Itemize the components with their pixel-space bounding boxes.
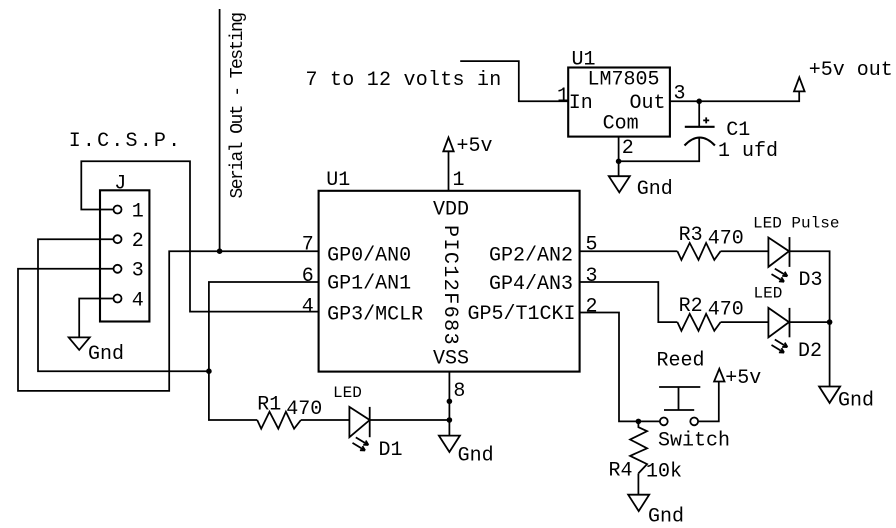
reed switch S1 [657, 349, 731, 452]
svg-text:7: 7 [302, 233, 314, 256]
label Serial Out - Testing (vertical) [228, 13, 248, 199]
power +5v arrow at chip VDD [443, 135, 492, 158]
wire D2 to ground rail [790, 321, 830, 323]
svg-text:VDD: VDD [433, 198, 469, 221]
node junction on GP0 wire at serial line [217, 248, 223, 254]
svg-text:R4: R4 [609, 460, 633, 483]
resistor R3 470 [677, 224, 743, 260]
node junction Out/C1 [696, 99, 702, 105]
wire R1 to D1 [301, 419, 350, 421]
svg-text:Gnd: Gnd [838, 389, 874, 412]
wire switch right contact to +5v [698, 382, 719, 422]
capacitor C1 [685, 117, 779, 163]
svg-text:GP1/AN1: GP1/AN1 [327, 273, 411, 296]
wire C1 top lead [698, 101, 700, 126]
svg-text:LED: LED [754, 285, 783, 303]
wire R4 to ground [637, 473, 639, 494]
resistor R1 470 [257, 393, 322, 428]
svg-text:+5v: +5v [457, 135, 493, 158]
node junction switch/R4 [636, 419, 642, 425]
node junction Com/C1 [616, 159, 622, 165]
wire D1 to VSS ground node [370, 419, 450, 421]
wire ICSP pin2 to node A [38, 239, 209, 371]
svg-text:+5v out: +5v out [809, 59, 893, 82]
svg-text:GP0/AN0: GP0/AN0 [327, 244, 411, 267]
power +5v arrow at switch [714, 367, 761, 390]
svg-text:+5v: +5v [725, 367, 761, 390]
svg-text:6: 6 [302, 265, 314, 288]
svg-text:LED Pulse: LED Pulse [753, 214, 839, 232]
svg-text:Gnd: Gnd [648, 505, 684, 528]
wire serial-out vertical line [219, 9, 221, 251]
wire node A down to R1 [209, 371, 257, 420]
svg-text:10k: 10k [646, 461, 682, 484]
wire ICSP pin4 to ground [79, 299, 113, 338]
svg-text:R2: R2 [679, 295, 703, 318]
connector J (ICSP header) [100, 172, 149, 321]
power +5v out arrow [794, 59, 893, 91]
ground symbol at VSS [439, 436, 494, 468]
regulator U1 LM7805 [557, 48, 686, 159]
svg-text:Switch: Switch [658, 429, 730, 452]
svg-text:VSS: VSS [433, 347, 469, 370]
svg-text:1: 1 [557, 85, 569, 108]
node A junction [206, 368, 212, 374]
svg-text:GP5/T1CKI: GP5/T1CKI [468, 303, 576, 326]
svg-text:I.C.S.P.: I.C.S.P. [69, 130, 183, 153]
node junction D2/D3 ground rail [827, 319, 833, 325]
wire D3 to ground rail [790, 251, 830, 386]
svg-text:PIC12F683: PIC12F683 [438, 225, 461, 346]
svg-text:C1: C1 [726, 119, 750, 142]
node junction on VSS wire [447, 399, 453, 405]
svg-text:Reed: Reed [657, 349, 705, 372]
svg-text:R3: R3 [679, 224, 703, 247]
svg-text:3: 3 [586, 265, 598, 288]
ground symbol at ICSP pin4 [69, 337, 124, 366]
resistor R2 470 [677, 295, 743, 331]
LED D2 [754, 285, 823, 363]
wire R3 to D3 [721, 250, 769, 252]
svg-text:1: 1 [453, 169, 465, 192]
svg-text:Gnd: Gnd [637, 178, 673, 201]
node junction VSS/D1 [447, 417, 453, 423]
svg-text:2: 2 [132, 230, 144, 253]
wire regulator Out pin3 to +5v out [670, 91, 799, 101]
wire node to switch left contact [638, 420, 659, 422]
ground symbol at R4 [628, 495, 684, 528]
svg-text:D2: D2 [798, 340, 822, 363]
svg-text:2: 2 [622, 137, 634, 160]
svg-text:In: In [569, 92, 593, 115]
svg-text:470: 470 [286, 398, 322, 421]
svg-text:4: 4 [302, 295, 314, 318]
ground symbol at regulator Com [609, 176, 673, 201]
LED D1 [333, 384, 403, 462]
svg-text:U1: U1 [326, 169, 350, 192]
svg-text:D1: D1 [379, 439, 403, 462]
wire R2 to D2 [721, 321, 769, 323]
svg-text:Com: Com [603, 113, 639, 136]
svg-text:R1: R1 [257, 393, 281, 416]
svg-text:5: 5 [586, 233, 598, 256]
svg-text:3: 3 [132, 260, 144, 283]
wire C1 bottom lead to Com node [619, 139, 700, 162]
wire ICSP pin3 to GP0/AN0 [18, 251, 319, 391]
svg-text:4: 4 [132, 289, 144, 312]
svg-text:GP4/AN3: GP4/AN3 [489, 273, 573, 296]
label I.C.S.P. [69, 130, 183, 153]
resistor R4 10k [609, 421, 683, 483]
svg-text:1: 1 [132, 200, 144, 223]
svg-text:GP2/AN2: GP2/AN2 [489, 244, 573, 267]
wire GP2/AN2 pin5 to R3 [580, 250, 678, 252]
wire GP5/T1CKI pin2 down to switch node [580, 313, 639, 422]
IC U1 PIC12F683 microcontroller [302, 169, 598, 403]
ground symbol at LED rail [819, 387, 874, 413]
LED D3 [753, 214, 839, 292]
svg-text:LM7805: LM7805 [588, 68, 660, 91]
svg-text:470: 470 [708, 299, 744, 322]
svg-text:J: J [114, 172, 126, 195]
wire ICSP pin1 to GP3/MCLR [81, 161, 318, 311]
svg-text:8: 8 [453, 380, 465, 403]
svg-text:470: 470 [708, 228, 744, 251]
wire GP4/AN3 pin3 to R2 [580, 282, 678, 322]
wire VSS pin8 down to ground [448, 372, 450, 436]
svg-text:D3: D3 [799, 269, 823, 292]
label 7 to 12 volts in [306, 69, 502, 92]
wire regulator Com pin2 down [618, 137, 620, 177]
svg-text:2: 2 [586, 295, 598, 318]
svg-text:Gnd: Gnd [458, 445, 494, 468]
svg-text:LED: LED [333, 384, 362, 402]
wire +5v to VDD pin 1 [448, 151, 450, 191]
wire input supply to regulator In pin 1 [460, 61, 568, 101]
svg-text:Gnd: Gnd [88, 343, 124, 366]
svg-text:7 to 12 volts in: 7 to 12 volts in [306, 69, 502, 92]
wire node A up to GP1/AN1 [209, 282, 319, 371]
svg-text:1 ufd: 1 ufd [718, 140, 778, 163]
svg-text:GP3/MCLR: GP3/MCLR [327, 303, 423, 326]
svg-text:Out: Out [630, 92, 666, 115]
svg-text:Serial Out - Testing: Serial Out - Testing [228, 13, 248, 199]
